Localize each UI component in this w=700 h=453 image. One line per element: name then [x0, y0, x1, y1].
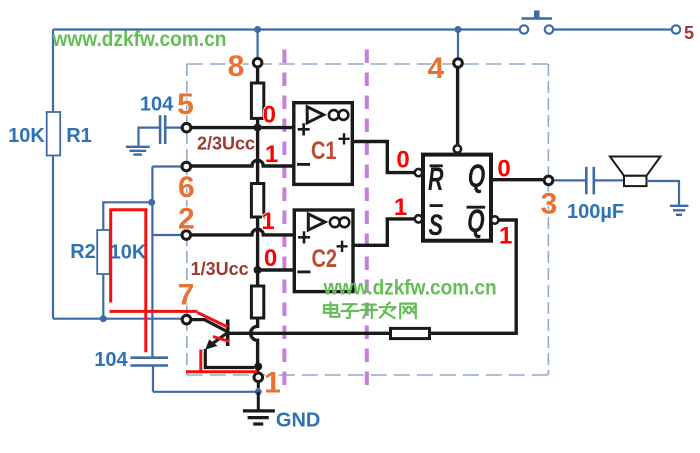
pin 5: [182, 123, 191, 132]
svg-text:+: +: [338, 127, 351, 152]
svg-text:10K: 10K: [8, 125, 45, 147]
wire below R1: [52, 156, 54, 319]
label R bar: [428, 161, 444, 197]
resistor R2: [97, 230, 110, 274]
wire left vertical to R1: [52, 30, 54, 113]
svg-text:100µF: 100µF: [567, 201, 624, 223]
label Q bar: [467, 203, 486, 239]
bubble reset top: [454, 145, 461, 152]
wire to pin 2: [152, 234, 182, 236]
pin 8: [253, 58, 262, 67]
svg-text:+: +: [297, 225, 311, 252]
svg-text:R1: R1: [66, 125, 92, 147]
svg-text:−: −: [296, 257, 311, 287]
flip-flop U1: [423, 155, 491, 241]
wire cap to speaker: [594, 179, 624, 181]
svg-text:R2: R2: [70, 241, 96, 263]
node emitter/pin1: [254, 363, 262, 371]
bubble Q-bar output: [491, 216, 498, 223]
wire pin 4 feed: [457, 30, 459, 59]
svg-text:www.dzkfw.com.cn: www.dzkfw.com.cn: [52, 28, 227, 51]
capacitor 100uF: [586, 167, 594, 195]
svg-text:1: 1: [261, 208, 274, 235]
wire cap104 to ground: [139, 128, 161, 147]
wire branch to R2: [103, 202, 151, 230]
IC 555 dashed boundary: [187, 64, 549, 375]
wire R2 bottom: [102, 274, 104, 319]
wire pin6 to C1- with hop: [191, 160, 294, 166]
svg-text:Q: Q: [468, 158, 486, 194]
svg-text:1: 1: [394, 194, 407, 221]
capacitor 104 control: [160, 115, 165, 144]
section divider dashed purple right: [365, 50, 369, 392]
svg-text:1: 1: [265, 141, 278, 168]
bubble S input: [415, 215, 422, 222]
wire C1 out to R input: [352, 142, 414, 173]
svg-text:2/3Ucc: 2/3Ucc: [197, 134, 255, 154]
svg-text:C2: C2: [312, 245, 338, 273]
capacitor C 104 timing: [130, 358, 168, 366]
resistor divider bottom: [251, 286, 263, 318]
wire divider to pin1 with hop bulge: [251, 318, 258, 373]
wire to pin 6: [152, 165, 182, 167]
svg-text:GND: GND: [276, 410, 320, 432]
wire cap to ground rail: [153, 366, 258, 392]
svg-text:2: 2: [178, 203, 195, 236]
pin 2: [182, 231, 191, 240]
svg-text:6: 6: [178, 171, 195, 204]
svg-text:0: 0: [263, 102, 276, 129]
wire pin2 to C2+ with hop: [191, 229, 294, 235]
node 5V terminal circle: [672, 25, 680, 33]
wire pin 8 feed: [257, 30, 259, 59]
pin 6: [182, 162, 191, 171]
svg-text:www.dzkfw.com.cn: www.dzkfw.com.cn: [323, 277, 497, 300]
resistor base drive: [391, 328, 430, 338]
section divider dashed purple left: [282, 50, 286, 392]
pin 7: [182, 315, 191, 324]
op-amp C1: [294, 103, 353, 185]
svg-text:−: −: [296, 149, 311, 179]
wire bottom horizontal to pin 7: [53, 318, 182, 320]
ground speaker: [670, 206, 689, 215]
node 1/3Ucc: [254, 266, 262, 274]
watermark chinese: [324, 303, 416, 319]
svg-text:8: 8: [228, 50, 245, 83]
wire pin8 to divider: [256, 67, 259, 83]
junction dots blue: [100, 26, 462, 395]
wire pin5 node to C1+: [191, 126, 294, 129]
transistor Q1 discharge: [191, 320, 255, 368]
wire pin4 to flip-flop: [456, 67, 459, 144]
wire pin1 to ground: [257, 382, 260, 411]
op-amp C2: [294, 210, 353, 292]
bubble R input: [415, 169, 422, 176]
svg-text:104: 104: [94, 349, 128, 371]
svg-text:4: 4: [427, 52, 444, 85]
wire pins 6/2 vertical to C: [151, 167, 153, 358]
wire cap104 to pin 5: [165, 126, 182, 128]
wire to 1/3 node: [256, 217, 259, 286]
svg-text:104: 104: [140, 94, 174, 116]
wire speaker to ground: [647, 181, 680, 206]
node 2/3Ucc: [254, 124, 262, 132]
svg-text:5: 5: [177, 88, 194, 121]
transistor emitter arrow: [205, 339, 217, 349]
svg-text:0: 0: [264, 245, 277, 272]
pin 3: [544, 176, 553, 185]
wire pin 3 to output cap: [553, 179, 587, 181]
label S bar: [429, 206, 444, 242]
wire Vcc top rail: [53, 28, 672, 30]
svg-text:5: 5: [684, 23, 694, 43]
svg-text:S: S: [429, 209, 444, 242]
svg-text:10K: 10K: [110, 242, 147, 264]
wire Q to pin 3: [491, 178, 544, 181]
resistor divider top: [251, 83, 263, 118]
svg-text:1: 1: [264, 367, 281, 400]
ground control cap: [126, 147, 150, 155]
svg-text:0: 0: [497, 156, 510, 183]
ground GND: [243, 411, 275, 424]
annotation red discharge path: [110, 209, 258, 372]
svg-text:+: +: [297, 117, 311, 144]
wire 1/3 node to C2-: [258, 268, 295, 271]
svg-text:+: +: [336, 234, 349, 259]
pushbutton switch: [520, 11, 553, 34]
svg-text:1: 1: [499, 222, 512, 249]
svg-text:7: 7: [178, 279, 195, 312]
speaker: [610, 157, 661, 187]
wire C2 out to S input: [353, 219, 415, 245]
resistor divider middle: [251, 184, 263, 218]
svg-text:0: 0: [396, 146, 409, 173]
wire Q-bar to base resistor: [430, 220, 517, 333]
pin 4: [454, 59, 463, 68]
wire to 2/3 node: [256, 118, 259, 183]
svg-text:C1: C1: [311, 137, 337, 165]
svg-text:1/3Ucc: 1/3Ucc: [191, 259, 249, 279]
pin 1: [254, 373, 263, 382]
resistor R1: [47, 112, 61, 156]
wire base resistor to transistor: [229, 332, 390, 335]
svg-text:3: 3: [541, 188, 558, 221]
